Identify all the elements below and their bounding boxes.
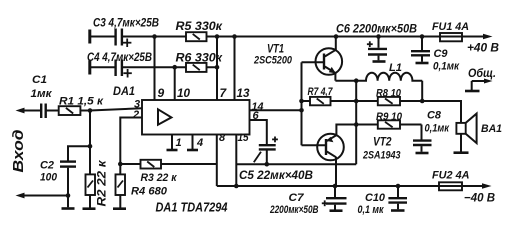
svg-text:R4 680: R4 680 (131, 186, 168, 198)
node: R7/R8 row on emitter column (354, 99, 359, 104)
wire: base column VT1-VT2 (301, 62, 303, 145)
svg-text:0,1мк: 0,1мк (433, 61, 460, 73)
fuse FU1 (432, 21, 469, 41)
ground (C6) (373, 60, 386, 63)
svg-text:C7: C7 (289, 192, 305, 204)
capacitor C3 (90, 16, 159, 48)
wire: pin 10 column (174, 67, 176, 100)
ground (BA1) (454, 151, 469, 154)
svg-text:C2: C2 (40, 160, 54, 172)
wire: pin 8 column to -40V rail (216, 135, 218, 187)
inductor L1 (356, 62, 422, 101)
terminal: Общ. (common) (465, 66, 496, 91)
svg-text:C4 4,7мк×25В: C4 4,7мк×25В (87, 50, 152, 64)
svg-text:−40 В: −40 В (464, 191, 495, 205)
capacitor C4 (87, 50, 152, 78)
resistor R4 (116, 164, 168, 208)
resistor R3 (120, 160, 217, 184)
fuse FU2 (432, 170, 470, 191)
wire: speaker wire (422, 101, 461, 123)
svg-text:8: 8 (219, 132, 226, 144)
svg-text:FU2 4А: FU2 4А (432, 170, 470, 182)
ground (C7) (330, 209, 343, 212)
wire: C5 row (pin15 to emitter column) (236, 163, 356, 165)
svg-text:FU1 4А: FU1 4А (432, 21, 469, 33)
svg-text:1мк: 1мк (31, 88, 53, 100)
svg-text:C6 2200мк×50В: C6 2200мк×50В (336, 22, 417, 36)
svg-text:C9: C9 (434, 48, 449, 60)
input arrow (bottom) (16, 193, 69, 199)
node: C5 bottom junction (265, 162, 270, 167)
node: R6 right junction on pin7 column (215, 65, 220, 70)
svg-text:R2 22 к: R2 22 к (95, 159, 109, 206)
svg-text:+40 В: +40 В (467, 41, 499, 55)
resistor R2 (86, 159, 109, 207)
svg-text:2: 2 (132, 109, 139, 121)
capacitor C2 (40, 146, 90, 207)
ground (R4) (113, 207, 126, 210)
svg-text:DA1 TDA7294: DA1 TDA7294 (156, 200, 229, 215)
wire: pin 13 column (234, 37, 236, 101)
capacitor C1 (31, 74, 59, 118)
transistor VT1 2SC5200 (253, 37, 356, 81)
svg-text:Вход: Вход (11, 129, 27, 172)
resistor R7 (302, 86, 378, 105)
svg-text:C5 22мк×40В: C5 22мк×40В (239, 168, 313, 182)
node: pin15 on -40V rail (234, 184, 239, 189)
node: VT1 collector on +40V rail (334, 34, 339, 39)
wire: -40V bottom rail (217, 185, 482, 187)
svg-text:4: 4 (196, 137, 203, 149)
capacitor C9 (411, 37, 460, 73)
node: C9 on rail (420, 34, 425, 39)
wire: pin 2 stub and column (120, 118, 142, 165)
resistor R6 (176, 51, 223, 72)
resistor R9 (356, 111, 422, 129)
node: R1 output junction (88, 108, 93, 113)
svg-text:0,1 мк: 0,1 мк (358, 204, 385, 216)
ground (pin 1) (167, 135, 178, 151)
node: rail junction pin9/C3 (152, 34, 157, 39)
resistor R8 (376, 88, 422, 106)
input arrow (top) (16, 108, 42, 114)
node: C6 on rail (376, 34, 381, 39)
capacitor C5 (239, 120, 313, 182)
svg-text:R1 1,5 к: R1 1,5 к (59, 96, 105, 108)
capacitor C10 (358, 186, 408, 216)
wire: pin 14 output row (250, 109, 302, 111)
node: R3/R4 junction on pin2 column (118, 162, 123, 167)
svg-text:C10: C10 (365, 192, 386, 204)
svg-text:15: 15 (238, 132, 250, 144)
svg-text:R7 4,7: R7 4,7 (308, 86, 334, 98)
node: output junction (R8/L1/speaker) (420, 99, 425, 104)
svg-text:10: 10 (177, 86, 190, 100)
wire: pin 9 column (154, 37, 156, 101)
svg-text:R8 10: R8 10 (376, 88, 402, 100)
svg-text:VT1: VT1 (267, 42, 284, 56)
svg-text:0,1мк: 0,1мк (425, 123, 451, 135)
ground (R2) (83, 207, 96, 210)
terminal arrow +40V (467, 34, 499, 55)
wire: pin 7 column (216, 37, 218, 101)
node: VT2 collector / C7 on -40V rail (333, 184, 338, 189)
svg-text:9: 9 (158, 86, 165, 100)
svg-text:BA1: BA1 (481, 123, 502, 135)
wire: C4/R6 row (90, 66, 218, 68)
svg-text:R3 22 к: R3 22 к (141, 172, 178, 184)
capacitor C6 (336, 22, 417, 61)
svg-text:Общ.: Общ. (468, 66, 496, 80)
capacitor C8 (413, 110, 450, 152)
node: rail junction pin13 (232, 34, 237, 39)
svg-text:2200мк×50В: 2200мк×50В (269, 204, 318, 216)
node: rail junction pin7 (215, 34, 220, 39)
wire: to pin 3 (90, 108, 142, 110)
wire: C2/R2 column from R1 node (89, 111, 91, 175)
node: emitters/L1 junction (354, 78, 359, 83)
ground (C9) (416, 62, 429, 65)
resistor R1 (59, 96, 105, 116)
node: pin14 junction on base column (299, 108, 304, 113)
wire: emitter column (355, 81, 357, 165)
svg-text:1: 1 (176, 137, 182, 149)
ground (C10) (391, 209, 405, 212)
wire: +40V top rail (90, 36, 484, 38)
svg-text:C8: C8 (427, 110, 442, 122)
svg-text:2SC5200: 2SC5200 (253, 55, 293, 67)
svg-text:R9 10: R9 10 (376, 111, 403, 123)
node: C2 branch junction (88, 144, 93, 149)
svg-text:VT2: VT2 (373, 135, 392, 149)
svg-text:L1: L1 (389, 62, 402, 74)
wire: pin 15 column (235, 135, 237, 187)
svg-text:C3 4,7мк×25В: C3 4,7мк×25В (93, 16, 159, 30)
svg-text:R6 330к: R6 330к (176, 51, 223, 65)
terminal arrow -40V (464, 183, 495, 204)
transistor VT2 2SA1943 (302, 125, 401, 187)
node: R9 row on emitter column (354, 122, 359, 127)
capacitor C7 (269, 186, 346, 216)
ground (pin 4) (187, 135, 198, 151)
node: row junction pin10/C4 (172, 65, 177, 70)
svg-text:13: 13 (237, 86, 250, 100)
ground (C8) (416, 152, 429, 155)
svg-text:100: 100 (40, 172, 58, 184)
svg-text:DA1: DA1 (113, 84, 135, 98)
node: R7 junction on base column (299, 99, 304, 104)
svg-text:C1: C1 (32, 74, 47, 86)
ground (C2/input) (62, 207, 75, 210)
loudspeaker BA1 (456, 114, 502, 152)
op-amp IC DA1 TDA7294 body (142, 100, 250, 135)
node: C10 on -40V rail (396, 184, 401, 189)
resistor R5 (176, 19, 223, 41)
svg-text:2SA1943: 2SA1943 (362, 150, 400, 162)
node: input return junction (66, 193, 71, 198)
svg-text:R5 330к: R5 330к (176, 19, 223, 33)
